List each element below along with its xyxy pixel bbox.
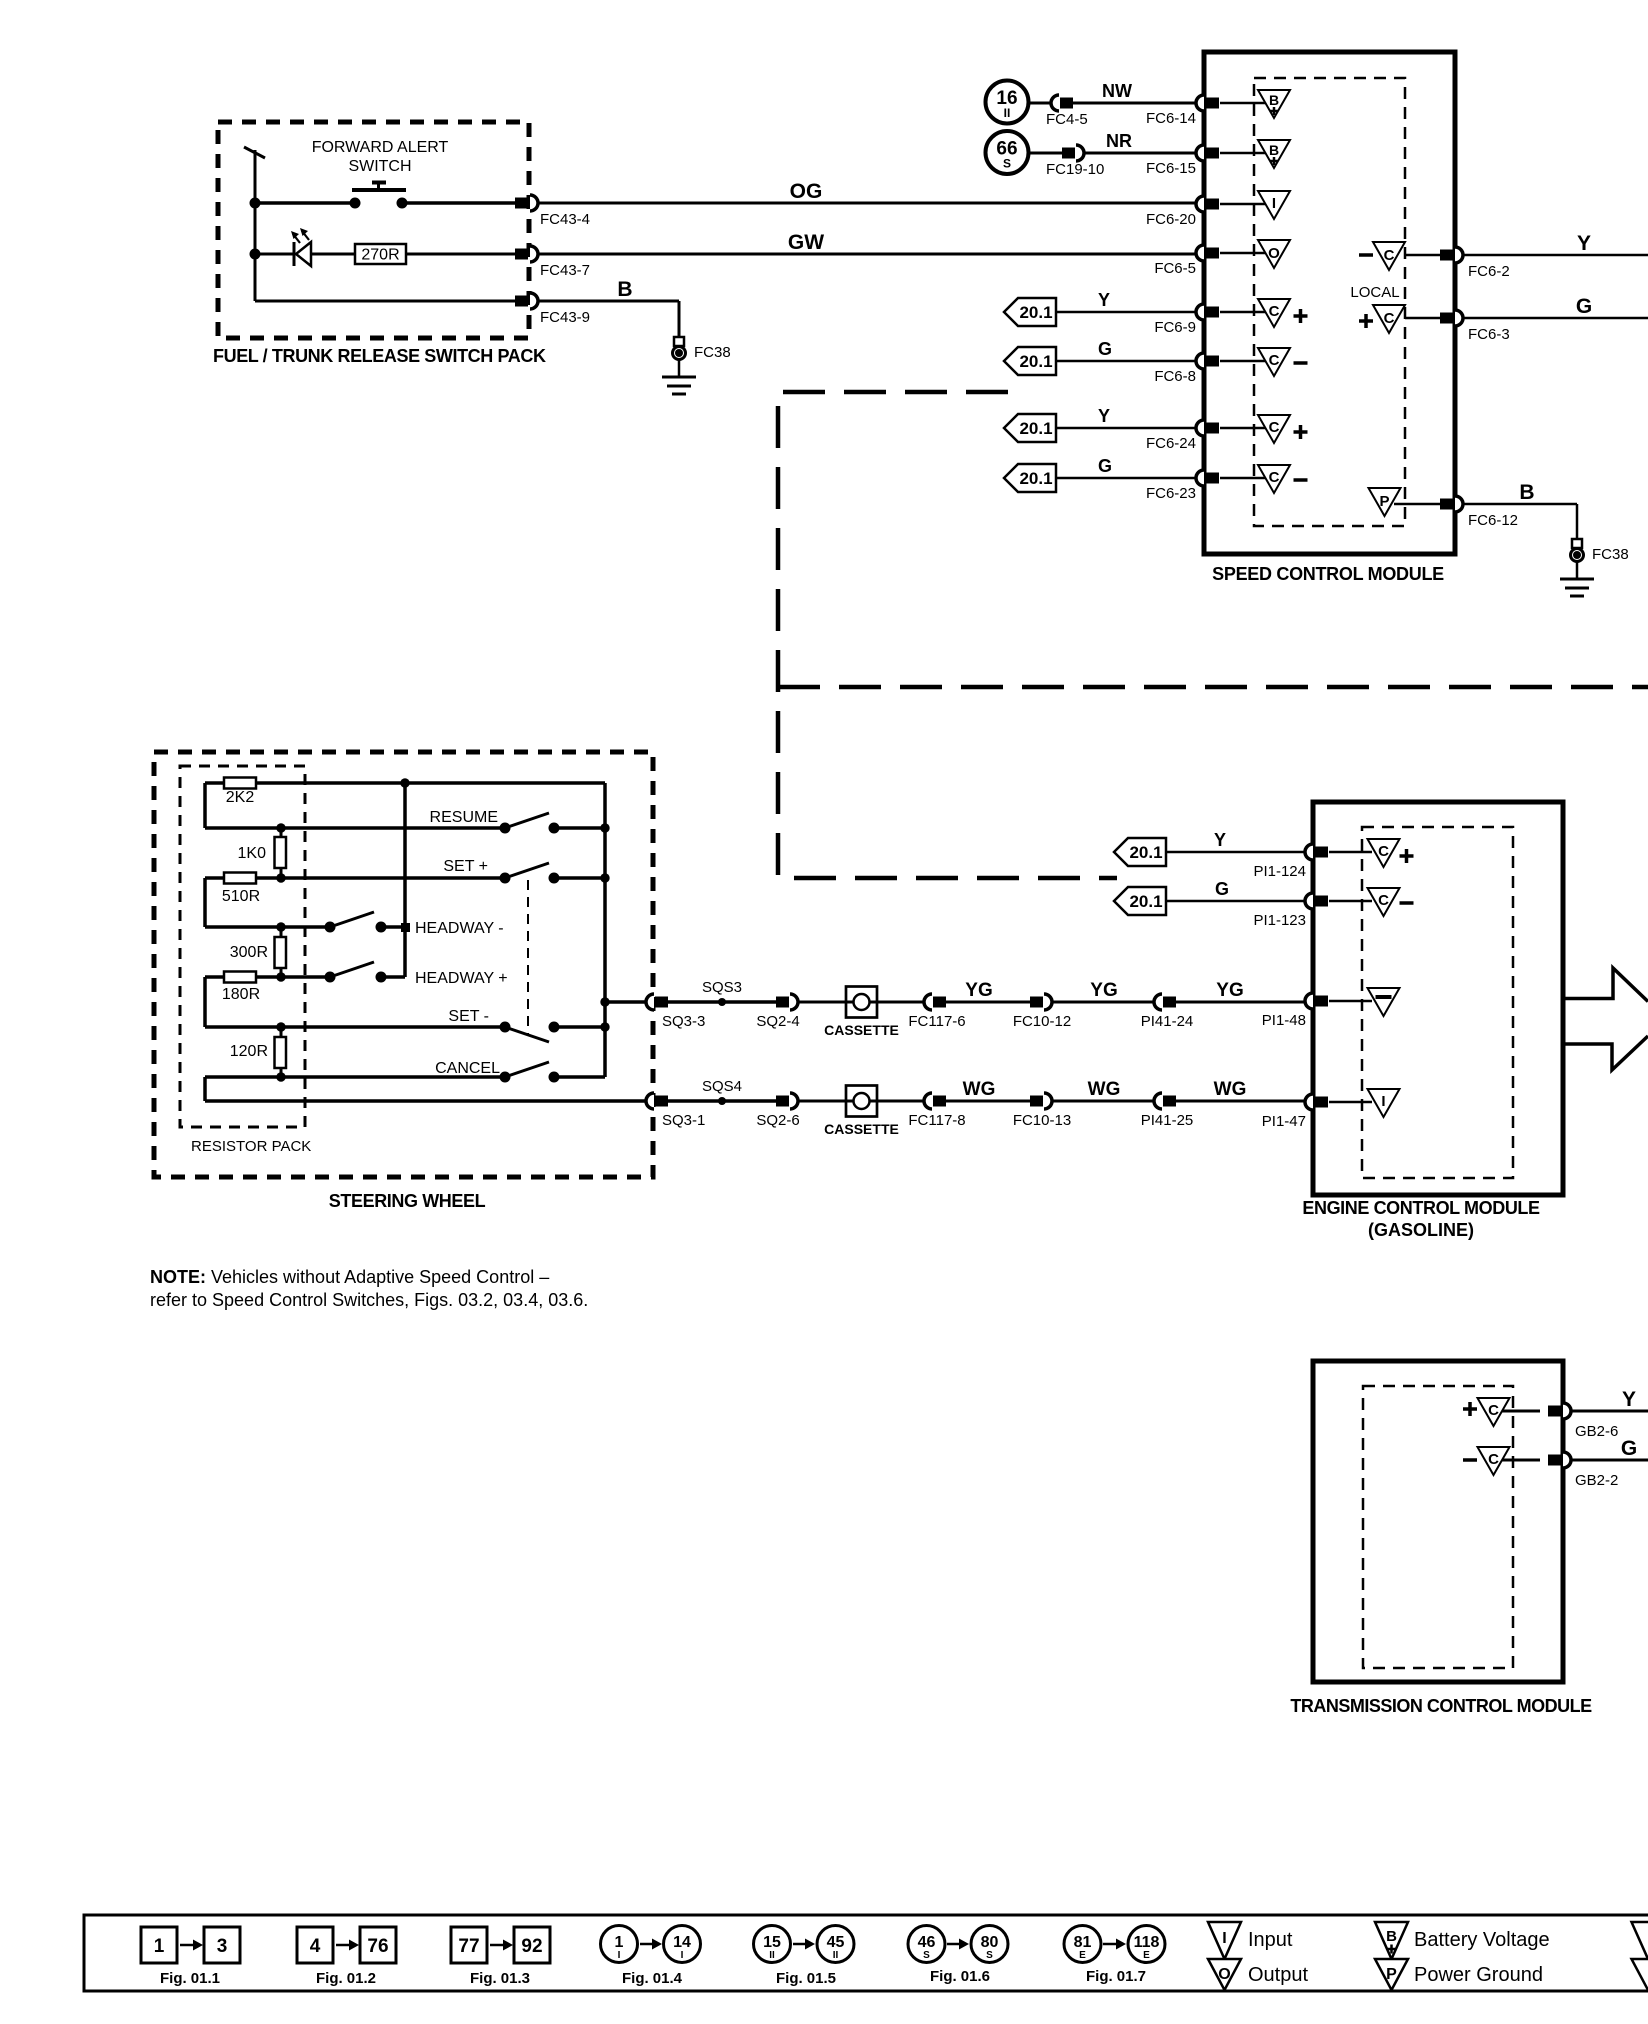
svg-text:P: P	[1386, 1966, 1397, 1983]
svg-text:B: B	[617, 278, 632, 301]
svg-text:45: 45	[827, 1934, 845, 1951]
svg-text:SWITCH: SWITCH	[348, 158, 411, 175]
svg-text:FC4-5: FC4-5	[1046, 111, 1088, 128]
svg-text:FC6-20: FC6-20	[1146, 211, 1196, 228]
svg-text:ENGINE CONTROL MODULE: ENGINE CONTROL MODULE	[1302, 1198, 1540, 1218]
svg-text:Fig. 01.6: Fig. 01.6	[930, 1968, 990, 1985]
svg-text:SET -: SET -	[448, 1008, 489, 1025]
svg-text:I: I	[1381, 1093, 1385, 1110]
svg-text:FC43-9: FC43-9	[540, 309, 590, 326]
svg-text:15: 15	[763, 1934, 781, 1951]
svg-text:SQS3: SQS3	[702, 979, 742, 996]
svg-text:C: C	[1269, 469, 1280, 486]
svg-text:RESISTOR PACK: RESISTOR PACK	[191, 1138, 311, 1155]
svg-text:76: 76	[367, 1936, 388, 1957]
svg-text:C: C	[1488, 1402, 1499, 1419]
svg-text:3: 3	[217, 1936, 228, 1957]
svg-text:SQ2-6: SQ2-6	[756, 1112, 799, 1129]
svg-text:P: P	[1379, 493, 1389, 510]
svg-text:FC6-24: FC6-24	[1146, 435, 1196, 452]
svg-text:PI1-124: PI1-124	[1253, 863, 1306, 880]
svg-text:S: S	[923, 1950, 930, 1961]
svg-text:B: B	[1519, 481, 1534, 504]
svg-text:FUEL / TRUNK RELEASE SWITCH PA: FUEL / TRUNK RELEASE SWITCH PACK	[213, 346, 546, 366]
svg-text:270R: 270R	[361, 247, 399, 264]
svg-text:FC6-23: FC6-23	[1146, 485, 1196, 502]
svg-text:180R: 180R	[222, 986, 260, 1003]
svg-text:SQS4: SQS4	[702, 1078, 742, 1095]
svg-text:C: C	[1488, 1451, 1499, 1468]
svg-text:2K2: 2K2	[226, 789, 255, 806]
svg-text:FC6-5: FC6-5	[1154, 260, 1196, 277]
svg-text:STEERING WHEEL: STEERING WHEEL	[329, 1191, 486, 1211]
svg-text:OG: OG	[790, 180, 823, 203]
svg-text:PI1-47: PI1-47	[1262, 1113, 1306, 1130]
svg-text:SQ2-4: SQ2-4	[756, 1013, 799, 1030]
svg-text:C: C	[1384, 310, 1395, 327]
svg-text:FC19-10: FC19-10	[1046, 161, 1104, 178]
svg-text:Fig. 01.2: Fig. 01.2	[316, 1970, 376, 1987]
svg-text:46: 46	[918, 1934, 936, 1951]
svg-text:S: S	[986, 1950, 993, 1961]
svg-text:I: I	[1222, 1930, 1226, 1947]
svg-text:Fig. 01.3: Fig. 01.3	[470, 1970, 530, 1987]
svg-text:Y: Y	[1622, 1388, 1636, 1411]
svg-text:FC6-2: FC6-2	[1468, 263, 1510, 280]
svg-text:G: G	[1576, 295, 1592, 318]
svg-text:NW: NW	[1102, 81, 1132, 101]
svg-text:G: G	[1098, 456, 1112, 476]
svg-text:LOCAL: LOCAL	[1350, 284, 1399, 301]
svg-text:SET +: SET +	[443, 858, 488, 875]
svg-text:I: I	[1272, 195, 1276, 212]
svg-text:B: B	[1269, 142, 1279, 158]
svg-text:PI1-48: PI1-48	[1262, 1012, 1306, 1029]
svg-text:PI1-123: PI1-123	[1253, 912, 1306, 929]
svg-text:E: E	[1079, 1950, 1086, 1961]
svg-text:SQ3-3: SQ3-3	[662, 1013, 705, 1030]
svg-text:510R: 510R	[222, 888, 260, 905]
svg-text:CANCEL: CANCEL	[435, 1060, 500, 1077]
svg-text:RESUME: RESUME	[430, 809, 498, 826]
svg-text:FC117-8: FC117-8	[908, 1112, 965, 1129]
svg-text:C: C	[1378, 892, 1389, 909]
svg-text:20.1: 20.1	[1019, 469, 1052, 488]
svg-text:GB2-2: GB2-2	[1575, 1472, 1618, 1489]
svg-text:20.1: 20.1	[1019, 303, 1052, 322]
svg-text:E: E	[1143, 1950, 1150, 1961]
svg-text:92: 92	[521, 1936, 542, 1957]
svg-text:20.1: 20.1	[1129, 843, 1162, 862]
svg-text:C: C	[1384, 247, 1395, 264]
svg-text:C: C	[1269, 303, 1280, 320]
svg-text:WG: WG	[963, 1079, 996, 1100]
svg-text:PI41-25: PI41-25	[1141, 1112, 1194, 1129]
svg-text:(GASOLINE): (GASOLINE)	[1368, 1220, 1474, 1240]
svg-text:FC117-6: FC117-6	[908, 1013, 965, 1030]
svg-text:4: 4	[310, 1936, 321, 1957]
svg-text:C: C	[1269, 352, 1280, 369]
svg-text:81: 81	[1074, 1934, 1092, 1951]
svg-text:1: 1	[154, 1936, 165, 1957]
svg-text:1K0: 1K0	[238, 845, 267, 862]
svg-text:TRANSMISSION CONTROL MODULE: TRANSMISSION CONTROL MODULE	[1290, 1696, 1592, 1716]
svg-text:GB2-6: GB2-6	[1575, 1423, 1618, 1440]
svg-text:118: 118	[1134, 1934, 1160, 1951]
svg-text:FC38: FC38	[694, 344, 731, 361]
svg-text:FC6-8: FC6-8	[1154, 368, 1196, 385]
svg-text:FC38: FC38	[1592, 546, 1629, 563]
svg-text:NR: NR	[1106, 131, 1132, 151]
svg-text:120R: 120R	[230, 1043, 268, 1060]
svg-text:WG: WG	[1214, 1079, 1247, 1100]
svg-text:G: G	[1098, 339, 1112, 359]
svg-text:77: 77	[458, 1936, 479, 1957]
svg-text:O: O	[1218, 1966, 1230, 1983]
svg-text:FC10-13: FC10-13	[1013, 1112, 1071, 1129]
svg-text:B: B	[1269, 92, 1279, 108]
svg-text:Battery Voltage: Battery Voltage	[1414, 1929, 1550, 1951]
svg-text:FC6-9: FC6-9	[1154, 319, 1196, 336]
svg-text:Output: Output	[1248, 1964, 1308, 1986]
svg-text:I: I	[618, 1950, 621, 1961]
svg-text:I: I	[681, 1950, 684, 1961]
svg-text:300R: 300R	[230, 944, 268, 961]
svg-text:FORWARD ALERT: FORWARD ALERT	[312, 139, 449, 156]
svg-text:HEADWAY +: HEADWAY +	[415, 970, 508, 987]
svg-text:Y: Y	[1098, 290, 1110, 310]
svg-text:Fig. 01.4: Fig. 01.4	[622, 1970, 683, 1987]
svg-text:FC43-7: FC43-7	[540, 262, 590, 279]
svg-text:II: II	[769, 1950, 775, 1961]
svg-text:Power Ground: Power Ground	[1414, 1964, 1543, 1986]
svg-text:B: B	[1386, 1928, 1397, 1945]
svg-text:G: G	[1215, 879, 1229, 899]
svg-text:CASSETTE: CASSETTE	[824, 1121, 899, 1137]
svg-text:Y: Y	[1214, 830, 1226, 850]
svg-text:Y: Y	[1098, 406, 1110, 426]
svg-text:SPEED CONTROL MODULE: SPEED CONTROL MODULE	[1212, 564, 1444, 584]
svg-text:Input: Input	[1248, 1929, 1293, 1951]
svg-text:FC6-12: FC6-12	[1468, 512, 1518, 529]
svg-text:CASSETTE: CASSETTE	[824, 1022, 899, 1038]
svg-text:14: 14	[673, 1934, 691, 1951]
svg-text:NOTE: Vehicles without Adaptiv: NOTE: Vehicles without Adaptive Speed Co…	[150, 1267, 549, 1287]
svg-text:FC10-12: FC10-12	[1013, 1013, 1071, 1030]
svg-text:80: 80	[981, 1934, 999, 1951]
svg-text:20.1: 20.1	[1019, 419, 1052, 438]
svg-text:YG: YG	[1216, 980, 1243, 1001]
svg-text:II: II	[1004, 106, 1011, 120]
svg-text:FC6-15: FC6-15	[1146, 160, 1196, 177]
svg-text:Y: Y	[1577, 232, 1591, 255]
svg-text:YG: YG	[1090, 980, 1117, 1001]
svg-text:FC6-14: FC6-14	[1146, 110, 1196, 127]
svg-text:1: 1	[615, 1934, 624, 1951]
svg-text:HEADWAY -: HEADWAY -	[415, 920, 504, 937]
svg-text:refer to Speed Control Switche: refer to Speed Control Switches, Figs. 0…	[150, 1290, 588, 1310]
svg-text:FC6-3: FC6-3	[1468, 326, 1510, 343]
svg-text:II: II	[833, 1950, 839, 1961]
svg-text:Fig. 01.5: Fig. 01.5	[776, 1970, 836, 1987]
svg-text:WG: WG	[1088, 1079, 1121, 1100]
svg-text:FC43-4: FC43-4	[540, 211, 590, 228]
svg-text:PI41-24: PI41-24	[1141, 1013, 1194, 1030]
svg-text:C: C	[1378, 843, 1389, 860]
svg-text:Fig. 01.1: Fig. 01.1	[160, 1970, 220, 1987]
svg-text:SQ3-1: SQ3-1	[662, 1112, 705, 1129]
svg-text:20.1: 20.1	[1129, 892, 1162, 911]
svg-text:Fig. 01.7: Fig. 01.7	[1086, 1968, 1146, 1985]
svg-text:C: C	[1269, 419, 1280, 436]
svg-text:20.1: 20.1	[1019, 352, 1052, 371]
svg-text:GW: GW	[788, 231, 824, 254]
svg-text:S: S	[1003, 157, 1011, 171]
svg-text:O: O	[1268, 245, 1280, 262]
svg-text:YG: YG	[965, 980, 992, 1001]
svg-text:G: G	[1621, 1437, 1637, 1460]
